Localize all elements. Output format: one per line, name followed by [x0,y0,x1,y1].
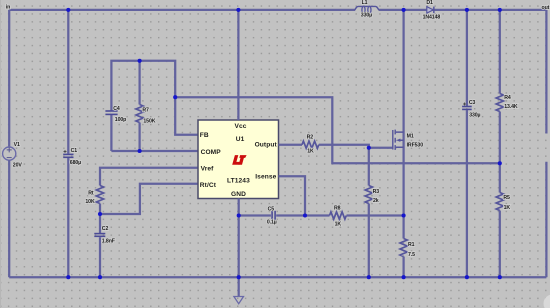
svg-text:100p: 100p [115,117,126,123]
IC U1 LT1243 [198,120,279,199]
resistor R3 [365,148,379,277]
wire GND [238,199,240,278]
svg-text:Vref: Vref [201,166,215,173]
svg-text:C5: C5 [268,206,275,212]
wire R8 to R1 [347,214,404,216]
svg-text:D1: D1 [426,0,433,6]
svg-text:1K: 1K [307,149,314,155]
junction top rail M1 drain [402,8,406,12]
svg-text:Vcc: Vcc [235,123,247,130]
resistor R5 [496,163,510,277]
svg-text:20V: 20V [13,163,23,169]
svg-text:GND: GND [231,191,246,198]
transistor M1 [392,10,423,163]
svg-text:R4: R4 [504,95,511,101]
wire COMP [111,150,198,152]
svg-text:10K: 10K [85,199,95,205]
svg-text:R1: R1 [408,242,415,248]
svg-text:R3: R3 [373,189,380,195]
junction bottom rail R1 [402,275,406,279]
svg-text:R5: R5 [503,195,510,201]
LT logo inside U1 [232,155,246,165]
svg-text:in: in [6,4,10,10]
junction bottom rail R3 [367,275,371,279]
wire C4/R7 top loop [111,61,198,151]
capacitor C3 [462,10,480,277]
junction top rail C3 [465,8,469,12]
svg-text:680µ: 680µ [70,160,81,166]
capacitor C4 [105,106,126,123]
junction top rail Vcc [236,8,240,12]
svg-text:330µ: 330µ [361,13,372,19]
resistor Rt [85,186,103,234]
svg-text:1K: 1K [504,205,511,211]
left screen edge [0,0,1,308]
svg-text:7.5: 7.5 [408,252,415,258]
junction bottom rail R5 [498,275,502,279]
svg-text:Rt/Ct: Rt/Ct [200,182,217,189]
inductor L1 [355,0,379,18]
svg-text:out: out [542,5,550,11]
wire bottom rail [9,276,546,278]
junction R8 R1 [402,213,406,217]
svg-text:Rt: Rt [88,190,94,196]
wire Vcc [237,10,239,120]
svg-text:1.8nF: 1.8nF [102,238,115,244]
svg-text:FB: FB [200,132,209,139]
junction Isense C5 [303,213,307,217]
svg-text:C2: C2 [102,226,109,232]
capacitor C2 [94,226,115,277]
svg-text:C3: C3 [469,100,476,106]
wire GND to C5 [239,214,271,216]
svg-text:C1: C1 [71,148,78,154]
svg-text:COMP: COMP [201,149,222,156]
junction bottom rail C2 [98,275,102,279]
junction GND C5 [237,213,241,217]
svg-text:Output: Output [255,142,278,149]
wire right rail lower [545,162,547,277]
svg-text:2k: 2k [373,198,379,204]
diode D1 [423,0,441,20]
wire M1 source to R1 [402,163,404,215]
voltage source V1 [3,142,23,168]
junction FB node [173,95,177,99]
wire FB node to divider [175,97,500,163]
svg-text:V1: V1 [14,142,20,148]
wire C5 to R8 [276,214,329,216]
svg-text:IRF530: IRF530 [407,143,424,149]
wire left rail upper [8,10,10,147]
svg-text:0.1µ: 0.1µ [267,220,277,226]
svg-text:1N4148: 1N4148 [423,15,441,21]
junction C4 loop R7 [138,59,142,63]
wire Vref [100,168,198,186]
svg-text:C4: C4 [113,106,120,112]
resistor R7 [136,61,156,151]
svg-text:R2: R2 [307,134,314,140]
wire Isense [279,176,306,215]
junction bottom rail C3 [465,275,469,279]
wire right rail upper [545,10,547,134]
junction top rail C1 [66,8,70,12]
svg-text:L1: L1 [362,0,368,6]
svg-text:M1: M1 [407,134,414,140]
junction divider R4 R5 [498,161,502,165]
capacitor C5 [267,206,277,225]
wire left rail lower [8,160,10,277]
junction COMP R7 [138,149,142,153]
svg-text:330µ: 330µ [469,113,480,119]
resistor R2 [279,134,393,154]
junction gate R3 [367,146,371,150]
junction bottom rail GND [237,275,241,279]
resistor R4 [496,10,518,163]
svg-text:U1: U1 [236,136,245,143]
resistor R1 [400,216,415,278]
junction RtCt node [98,212,102,216]
svg-text:R8: R8 [334,205,341,211]
svg-text:Isense: Isense [255,174,276,181]
ground symbol [234,277,244,304]
svg-text:LT1243: LT1243 [227,177,250,184]
junction top rail R4 [498,8,502,12]
capacitor C1 [63,10,81,277]
wire RtCt [100,184,198,214]
svg-text:1K: 1K [335,222,342,228]
scrollbar blob bottom-right [544,295,550,308]
svg-text:150K: 150K [143,119,155,125]
resistor R8 [330,205,347,227]
svg-text:R7: R7 [142,107,149,113]
wire top rail (in to out) [9,9,546,11]
junction bottom rail C1 [66,275,70,279]
svg-text:13.4K: 13.4K [504,104,518,110]
